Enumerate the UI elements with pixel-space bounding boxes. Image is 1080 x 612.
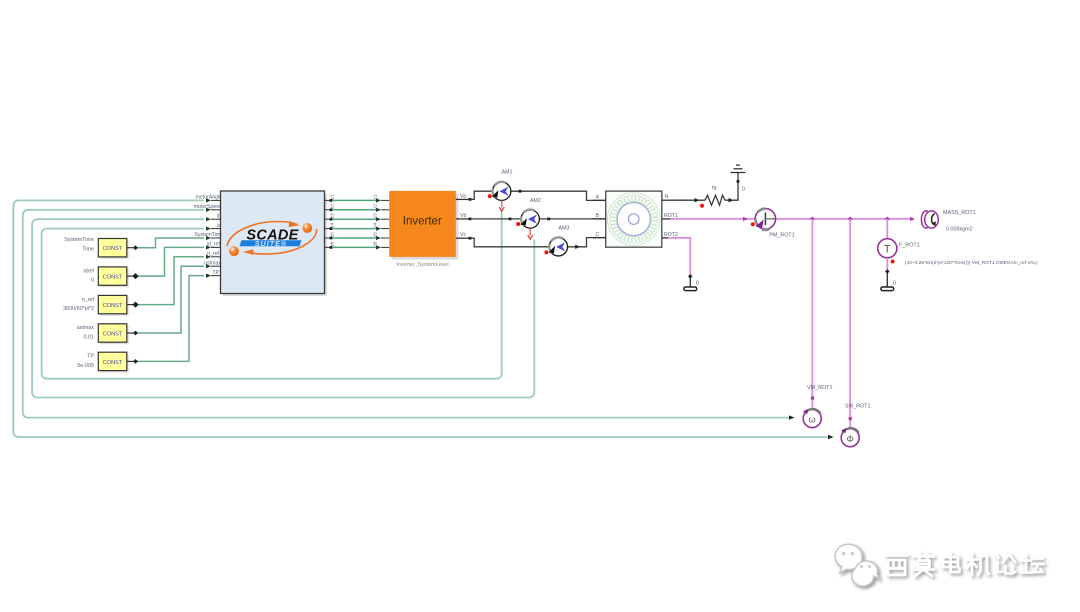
wire z4 [332, 228, 376, 230]
block CONST2 idref [84, 267, 139, 287]
svg-text:ω: ω [809, 415, 816, 425]
SCADE input pin labels [194, 195, 223, 276]
wire loop ia feedback (from AM1) [42, 211, 502, 379]
svg-text:z2: z2 [330, 204, 335, 209]
svg-text:ustmax: ustmax [77, 325, 95, 331]
svg-text:n_ref: n_ref [207, 251, 219, 257]
svg-text:CONST: CONST [103, 332, 123, 338]
z pin labels rotated left side [330, 194, 335, 246]
svg-text:rg: rg [712, 185, 717, 191]
svg-text:z5: z5 [330, 232, 335, 237]
svg-text:B: B [596, 213, 600, 219]
svg-text:n_ref: n_ref [82, 297, 95, 303]
earth ground symbol [731, 165, 746, 172]
node CONST1 SystemTime wire [137, 238, 204, 248]
svg-text:T: T [884, 243, 891, 255]
wire ROT1 magenta bus [670, 218, 755, 220]
svg-text:0.01: 0.01 [84, 335, 95, 341]
component VM_ROT1 speed sensor [803, 385, 832, 428]
svg-text:z1: z1 [330, 194, 335, 199]
z pin labels rotated right side [373, 194, 378, 246]
SCADE logo blue band [240, 240, 302, 246]
svg-text:z2: z2 [373, 204, 378, 209]
arrowhead into SM_ROT1 [828, 435, 834, 439]
svg-text:F_ROT1: F_ROT1 [899, 243, 920, 249]
wire SM_ROT1 drop [849, 219, 851, 429]
wire z2 [332, 209, 376, 211]
svg-text:5e-005: 5e-005 [77, 363, 94, 369]
SCADE input pin arrows [206, 198, 211, 277]
svg-text:z4: z4 [373, 222, 378, 227]
svg-text:MASS_ROT1: MASS_ROT1 [943, 210, 976, 216]
wire ROT2 to ground [668, 238, 690, 275]
svg-text:0: 0 [91, 278, 94, 284]
svg-text:z4: z4 [330, 222, 335, 227]
svg-text:TP: TP [212, 270, 219, 276]
SCADE logo swoosh upper arrowhead [289, 221, 300, 227]
svg-text:PM_ROT1: PM_ROT1 [769, 233, 794, 239]
svg-text:CONST: CONST [103, 360, 123, 366]
motor pin stubs [593, 200, 675, 238]
svg-text:z3: z3 [330, 213, 335, 218]
block U1 SCADE controller [221, 191, 328, 296]
svg-text:N: N [665, 194, 669, 200]
svg-text:0: 0 [696, 281, 699, 287]
svg-text:motorSpeed: motorSpeed [194, 204, 222, 210]
wire N to resistor [675, 199, 706, 201]
wire F_ROT1 to ground [886, 258, 888, 270]
red dot at resistor [700, 204, 704, 208]
svg-text:ustmax: ustmax [204, 260, 221, 266]
svg-text:z1: z1 [373, 194, 378, 199]
block CONST4 ustmax [77, 324, 138, 344]
wire Vb to AM2 to motor B [470, 218, 521, 220]
inverter output stubs Va Vb Vc [456, 199, 470, 238]
svg-text:idref: idref [84, 268, 95, 274]
block U2 Inverter [389, 191, 458, 260]
motor pin labels [596, 194, 678, 238]
SCADE input pin stubs [211, 200, 221, 275]
SCADE logo ball top-right [302, 223, 312, 233]
svg-text:CONST: CONST [103, 246, 123, 252]
component PM_ROT1 [751, 209, 795, 239]
resistor rg [705, 195, 725, 205]
junction diamonds on bus [810, 216, 890, 221]
svg-text:SM_ROT1: SM_ROT1 [845, 404, 870, 410]
component F_ROT1 torque source [878, 239, 1038, 266]
svg-text:Inverter: Inverter [403, 216, 442, 228]
component SM_ROT1 angle sensor [841, 404, 870, 447]
SCADE logo swoosh lower arc [247, 229, 317, 254]
wire z6 [332, 246, 376, 248]
node CONST5 TP wire [137, 276, 204, 362]
wire resistor to ground [725, 173, 738, 201]
svg-text:z5: z5 [373, 232, 378, 237]
svg-text:Vc: Vc [460, 232, 466, 238]
svg-text:Inverter_SystemLevel: Inverter_SystemLevel [396, 262, 448, 268]
svg-text:0.005kgm2: 0.005kgm2 [946, 227, 973, 233]
SCADE output stubs and dots [325, 200, 332, 247]
labels Va Vb Vc [460, 193, 466, 238]
block CONST3 n_ref [63, 295, 139, 315]
svg-text:AM2: AM2 [530, 198, 541, 204]
node CONST4 ustmax wire [137, 266, 204, 333]
svg-text:C: C [596, 232, 600, 238]
node CONST3 n_ref wire [137, 257, 204, 305]
wire F_ROT1 drop [886, 219, 888, 239]
svg-text:Vb: Vb [460, 213, 466, 219]
wire Va to AM1 to motor A [470, 191, 493, 199]
component MASS_ROT1 [921, 210, 975, 233]
block CONST5 TP [77, 352, 138, 372]
svg-text:3600/60*pi*2: 3600/60*pi*2 [63, 306, 94, 312]
plate ground at F_ROT1 [881, 287, 894, 291]
svg-text:Va: Va [460, 193, 466, 199]
svg-text:0: 0 [742, 187, 745, 193]
block M1 PMSM motor [606, 191, 662, 247]
wire VM_ROT1 drop [811, 219, 813, 409]
svg-text:(10+0.25*sin(2*pi*120*Time(t)): (10+0.25*sin(2*pi*120*Time(t))-VM_ROT1.O… [905, 260, 1038, 266]
svg-text:TP: TP [87, 354, 94, 360]
svg-text:SystemTime: SystemTime [194, 232, 223, 238]
svg-text:SUITE®: SUITE® [255, 239, 287, 248]
ammeter AM1 [488, 170, 513, 212]
svg-text:z3: z3 [373, 213, 378, 218]
plate ground at ROT2 [684, 287, 697, 291]
watermark logo 西莫电机论坛 [835, 544, 1043, 586]
svg-text:z6: z6 [373, 241, 378, 246]
svg-text:z6: z6 [330, 241, 335, 246]
wire z1 [332, 199, 376, 201]
wire loop motorSpeed feedback (from VM_ROT1) [23, 210, 789, 418]
svg-text:motorAngle: motorAngle [195, 195, 222, 201]
wire loop ib feedback (from AM2) [32, 219, 534, 397]
svg-text:AM1: AM1 [501, 170, 512, 176]
arrowhead into VM_ROT1 [789, 415, 795, 419]
svg-text:CONST: CONST [103, 275, 123, 281]
SCADE logo swoosh upper arc [227, 222, 297, 247]
SCADE logo swoosh lower arrowhead [243, 249, 254, 255]
svg-text:SystemTime: SystemTime [64, 237, 94, 243]
svg-text:CONST: CONST [103, 303, 123, 309]
ammeter AM3 [544, 226, 569, 256]
wire z3 [332, 218, 376, 220]
block CONST1 SystemTime [64, 237, 138, 259]
SCADE logo ball bottom-left [229, 246, 239, 256]
svg-text:VM_ROT1: VM_ROT1 [807, 385, 832, 391]
z wire arrowheads into inverter [376, 198, 381, 249]
svg-text:0: 0 [893, 281, 896, 287]
wire Vc to AM3 to motor C [470, 238, 549, 247]
svg-text:id_ref: id_ref [207, 242, 221, 248]
node CONST2 idref wire [137, 247, 204, 276]
svg-text:Time: Time [82, 246, 94, 252]
wire z5 [332, 237, 376, 239]
svg-text:AM3: AM3 [558, 226, 569, 232]
wire loop motorAngle feedback (from SM_ROT1) [13, 200, 828, 437]
ammeter AM2 [516, 198, 541, 239]
svg-text:A: A [596, 195, 600, 201]
svg-text:Φ: Φ [847, 434, 854, 444]
